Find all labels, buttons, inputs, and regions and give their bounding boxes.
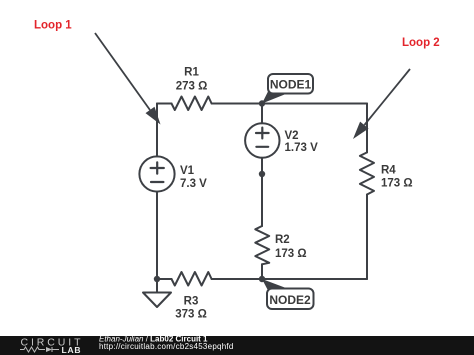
wire bottom R3 to right <box>212 278 367 280</box>
svg-text:V1: V1 <box>180 165 195 177</box>
svg-text:R4: R4 <box>381 165 396 177</box>
svg-text:1.73 V: 1.73 V <box>285 142 319 154</box>
svg-text:173 Ω: 173 Ω <box>275 248 307 260</box>
wire bottom left junction segment <box>157 278 172 280</box>
svg-text:LAB: LAB <box>62 345 82 355</box>
svg-text:7.3 V: 7.3 V <box>180 178 207 190</box>
svg-text:V2: V2 <box>285 130 299 142</box>
wire top-left segment <box>157 103 172 105</box>
resistor R4 <box>360 152 374 194</box>
svg-text:373 Ω: 373 Ω <box>175 309 207 321</box>
label R3 value <box>175 296 207 321</box>
voltage source V2 <box>245 123 279 157</box>
resistor R3 <box>172 272 212 286</box>
wire V2 to R2 <box>261 158 263 226</box>
svg-text:R2: R2 <box>275 234 290 246</box>
footer logo schematic + LAB <box>20 347 59 352</box>
ground stub wire <box>156 279 158 293</box>
svg-text:R1: R1 <box>184 67 199 79</box>
node dot middle branch wire joint <box>259 171 265 177</box>
footer bar <box>0 336 474 355</box>
NODE2 label box <box>267 289 314 310</box>
svg-text:273 Ω: 273 Ω <box>176 81 208 93</box>
wire right branch upper <box>366 104 368 153</box>
svg-text:173 Ω: 173 Ω <box>381 178 413 190</box>
NODE1 callout tail <box>262 92 287 104</box>
resistor R2 <box>255 226 269 264</box>
wire left branch lower <box>156 192 158 279</box>
svg-text:http://circuitlab.com/cb2s453e: http://circuitlab.com/cb2s453epqhfd <box>99 342 234 351</box>
V2 minus sign <box>256 146 268 148</box>
node dot NODE1 junction <box>259 100 265 106</box>
voltage source V1 <box>139 156 174 191</box>
node dot NODE2 junction <box>259 276 265 282</box>
label V2 value <box>285 130 319 154</box>
wire right branch lower <box>366 195 368 280</box>
loop 2 arrow <box>353 69 410 139</box>
label V1 value <box>180 165 207 190</box>
NODE1 label box <box>268 74 313 94</box>
wire top R1 to NODE1 junction <box>212 103 262 105</box>
svg-text:NODE1: NODE1 <box>270 78 312 92</box>
ground symbol <box>143 293 171 308</box>
label R1 value <box>176 67 208 93</box>
node dot bottom-left junction <box>154 276 160 282</box>
svg-text:Loop 1: Loop 1 <box>34 20 72 32</box>
label R2 value <box>275 234 307 260</box>
V1 plus sign <box>151 162 164 173</box>
svg-text:NODE2: NODE2 <box>269 293 311 307</box>
V1 minus sign <box>151 181 163 183</box>
NODE2 callout tail <box>262 279 290 291</box>
svg-text:Loop 2: Loop 2 <box>402 37 440 49</box>
resistor R1 <box>172 97 212 111</box>
wire middle branch upper <box>261 104 263 124</box>
loop 1 arrow <box>95 33 161 125</box>
wire top NODE1 to right corner <box>262 103 367 105</box>
label R4 value <box>381 165 413 190</box>
wire left branch upper <box>156 104 158 157</box>
V2 plus sign <box>256 128 269 139</box>
wire R2 to bottom junction <box>261 264 263 279</box>
svg-text:R3: R3 <box>184 296 199 308</box>
